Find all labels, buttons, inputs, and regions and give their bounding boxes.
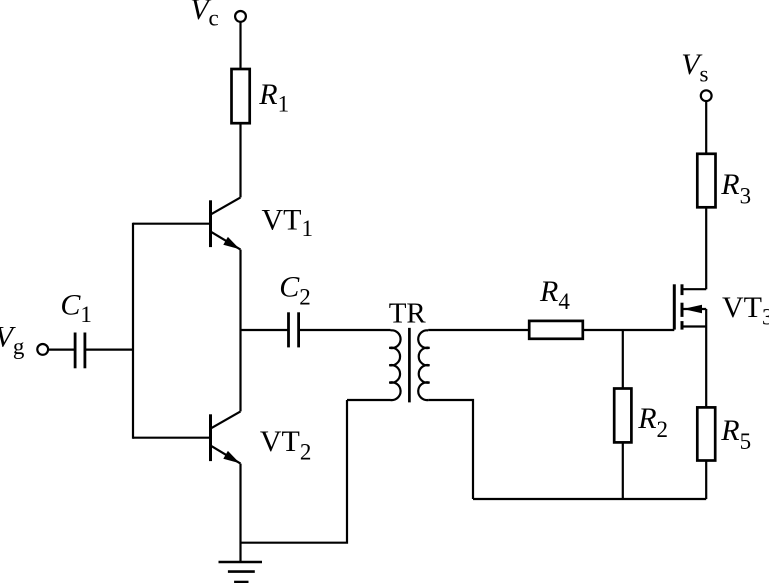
wire C1 to base bus <box>85 349 133 351</box>
transistor VT2 <box>211 411 241 463</box>
resistor R2 <box>614 389 631 443</box>
wire VT3 source to R5 <box>705 309 707 407</box>
wire junction down to R2 <box>622 330 624 389</box>
svg-text:VT3: VT3 <box>722 291 769 329</box>
resistor R3 <box>697 154 715 208</box>
resistor R1 <box>232 69 250 123</box>
wire VT2 base lead <box>133 437 211 439</box>
wire TR secondary bottom lead <box>428 400 473 499</box>
terminal Vg <box>37 344 48 355</box>
terminal Vs <box>701 90 712 101</box>
wire Vs to R3 <box>705 101 707 153</box>
wire R5 to bottom rail <box>705 461 707 500</box>
wire C2 to TR primary <box>299 329 391 331</box>
wire TR primary bottom lead <box>347 399 391 401</box>
wire ground node to TR primary bottom <box>241 400 348 543</box>
terminal Vc <box>235 11 246 22</box>
wire Vc to R1 <box>239 22 241 69</box>
transformer core <box>408 328 411 403</box>
wire bottom rail <box>473 498 706 500</box>
transistor VT1 <box>211 197 241 249</box>
svg-text:Vc: Vc <box>190 0 219 30</box>
ground <box>219 562 263 582</box>
wire R2 to bottom rail <box>622 442 624 499</box>
wire Vg to C1 <box>48 349 75 351</box>
transformer TR primary winding <box>389 330 400 400</box>
resistor R5 <box>697 407 715 460</box>
wire R3 to VT3 drain <box>705 207 707 289</box>
wire R4 to VT3 gate <box>583 329 675 331</box>
wire VT2 emitter down to ground <box>239 464 241 562</box>
wire emitter node to C2 <box>241 329 289 331</box>
wire VT1 base lead <box>133 223 211 225</box>
capacitor C1 <box>75 333 85 369</box>
transformer TR secondary winding <box>418 330 429 400</box>
wire R1 to VT1 collector <box>239 123 241 197</box>
wire VT1 emitter to VT2 collector <box>239 250 241 412</box>
svg-text:TR: TR <box>389 297 427 329</box>
wire base bus <box>132 223 134 439</box>
mosfet VT3 <box>674 284 706 329</box>
resistor R4 <box>529 321 583 339</box>
capacitor C2 <box>289 312 299 347</box>
wire TR secondary top to R4 <box>428 329 529 331</box>
